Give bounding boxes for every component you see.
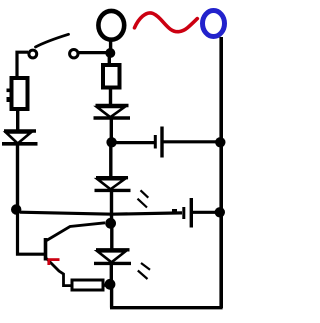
node C junction dot [106,137,116,147]
wire: bottom rail [110,306,223,309]
wire: node C to capacitor C1 [115,141,154,144]
wire: node C to LED D3 [109,146,112,177]
LED D3 cathode bar [95,189,131,192]
wire: R3 to node E [103,284,109,287]
node G junction dot on right rail [215,207,225,217]
capacitor C2 left plate [182,207,185,219]
resistor R2 [103,65,120,88]
AC sine squiggle (red) [135,13,198,32]
diode D2 cathode bar [94,116,131,119]
wire: switch left terminal to left rail [17,52,28,78]
LED D3 triangle [98,179,125,189]
wire: node B down to transistor base [18,213,45,254]
lamp/source circle (black) [98,11,124,40]
capacitor C2 right plate [190,198,193,228]
LED D3 anode bar [96,176,128,179]
terminal circle (blue) [203,11,225,37]
wire jog near C2 [172,209,177,212]
wire: R2 to diode D2 [109,88,112,105]
wire: lamp to node A [109,39,112,52]
transistor Q1 collector wire to node D [47,223,106,241]
wire: D2 to node C [110,119,113,142]
wire: C1 to right rail [164,140,218,143]
wire: D3 to node D [110,192,113,223]
LED D4 anode bar [96,248,130,251]
capacitor C1 right plate [160,127,163,158]
node A junction dot [105,48,115,58]
LED D4 triangle [98,251,126,262]
diode D2 triangle [97,107,125,117]
diode D1 cathode bar [2,142,38,146]
wire: node A to R2 [108,56,111,65]
resistor R3 (horizontal) [72,280,103,290]
switch SW1 right terminal [70,50,78,58]
switch SW1 left terminal [29,50,37,58]
wire: node E to bottom rail corner [110,286,113,308]
node F junction dot on right rail [215,137,225,147]
wire: right rail [219,37,223,308]
wire: C2 to right rail [193,211,217,214]
node D junction dot [105,218,116,229]
diode D1 anode bar [4,129,36,133]
capacitor C1 left plate [154,135,157,149]
diode D1 triangle [6,133,31,144]
switch SW1 lever [36,34,69,47]
node B junction dot [11,204,21,214]
LED D3 light rays [141,190,149,197]
wire: D1 to node B [16,145,19,211]
wire: node D to LED D4 [110,225,113,249]
wire: switch to node A [79,51,107,54]
LED D4 light rays [141,263,150,270]
wire: node B to capacitor C2 (long horizontal) [20,212,182,214]
transistor Q1 emitter wire [47,259,72,286]
transistor Q1 emitter arrow (red, PNP) [48,258,60,261]
resistor R1 side ticks [7,89,10,93]
LED D4 cathode bar [94,262,131,265]
wire: R1 to diode D1 [16,110,19,131]
wire: D4 to node E [110,264,113,284]
node E junction dot [105,279,116,290]
diode D2 anode bar [96,104,129,107]
transistor Q1 base bar [44,238,48,261]
resistor R1 [12,78,28,109]
